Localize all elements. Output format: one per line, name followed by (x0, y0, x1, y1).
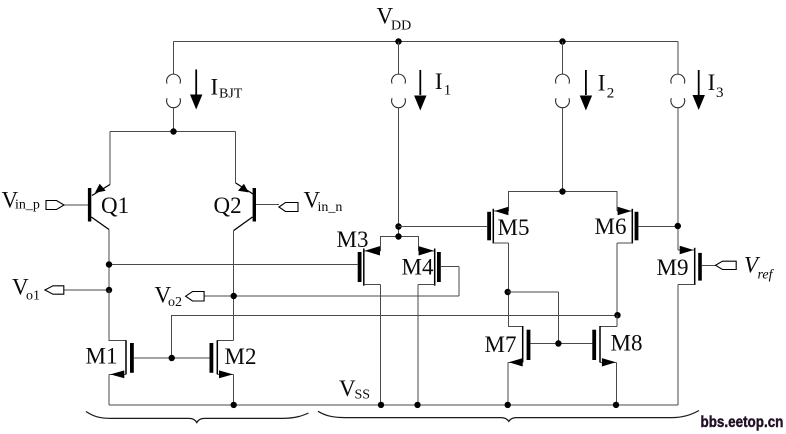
node I2 tie junction (559, 188, 565, 194)
node Q1 collector junction (106, 261, 112, 267)
svg-text:SS: SS (355, 388, 371, 403)
node M1-M2 gate junction (169, 355, 175, 361)
svg-text:M8: M8 (611, 331, 643, 356)
svg-text:2: 2 (607, 86, 615, 102)
svg-text:I: I (598, 71, 606, 96)
svg-text:I: I (211, 75, 219, 100)
svg-text:M1: M1 (86, 344, 118, 369)
wire Q1 collector to M3 gate (109, 264, 358, 266)
port Vo1 (45, 286, 64, 294)
arrow IBJT current direction (195, 70, 197, 96)
transistor M7 (508, 326, 592, 405)
node Vo1 junction (106, 287, 112, 293)
transistor M8 (592, 315, 617, 405)
node M3-M4 tie junction (395, 233, 401, 239)
node rail M3 drain junction (378, 402, 384, 408)
svg-text:I: I (708, 70, 716, 95)
wire M1-M2 gate node riser to M6 drain long wire (172, 316, 618, 359)
wire VDD top rail (174, 41, 678, 43)
svg-text:M6: M6 (595, 214, 627, 239)
node rail M8 source junction (613, 402, 619, 408)
transistor Q2 (234, 132, 279, 341)
svg-text:M9: M9 (657, 255, 689, 280)
svg-text:M5: M5 (498, 215, 530, 240)
wire Vo1 tap (64, 289, 109, 291)
node rail-I2 junction (559, 38, 565, 44)
brace right group (318, 411, 699, 422)
node rail M2 source junction (231, 402, 237, 408)
arrow I2 current direction (585, 70, 587, 95)
node M7-M8 gate junction (555, 340, 561, 346)
node rail M7 source junction (505, 402, 511, 408)
svg-text:BJT: BJT (219, 87, 243, 102)
svg-text:M2: M2 (225, 344, 257, 369)
svg-text:DD: DD (391, 19, 411, 34)
node rail M4 drain junction (414, 402, 420, 408)
wire M5 gate to I1 node (399, 226, 488, 228)
svg-text:ref: ref (758, 268, 775, 283)
current source I3 (671, 42, 685, 227)
wire tail node of BJT pair (110, 131, 236, 133)
node I1 to M5 gate junction (395, 223, 401, 229)
node tail junction (170, 128, 176, 134)
svg-text:M4: M4 (402, 255, 434, 280)
svg-text:o1: o1 (26, 289, 40, 304)
port Vo2 (186, 292, 205, 302)
transistor M5 (487, 207, 508, 327)
svg-text:M7: M7 (485, 332, 517, 357)
svg-text:I: I (435, 69, 443, 94)
transistor M9 (678, 226, 716, 405)
node I3-M6 gate junction (675, 223, 681, 229)
svg-text:M3: M3 (337, 227, 369, 252)
brace left group (86, 412, 309, 423)
svg-text:Q1: Q1 (101, 193, 129, 218)
current source IBJT (167, 42, 181, 132)
arrow I3 current direction (698, 70, 700, 95)
svg-text:in_p: in_p (15, 198, 40, 213)
wire Vo2 tap and run to M4 gate (204, 267, 459, 297)
port Vref (716, 261, 737, 269)
svg-text:bbs.eetop.cn: bbs.eetop.cn (701, 414, 784, 431)
wire M5 drain to M7-M8 gates jog (508, 292, 559, 344)
node rail-I1 junction (395, 38, 401, 44)
svg-text:o2: o2 (168, 295, 182, 310)
transistor M6 (617, 207, 678, 315)
wire M5 M6 source tie (509, 192, 617, 212)
node M5 drain junction (505, 289, 511, 295)
current source I2 (556, 42, 570, 192)
transistor M4 (418, 246, 441, 405)
arrow I1 current direction (419, 70, 421, 95)
port Vin_p (46, 201, 64, 210)
current source I1 (392, 42, 406, 237)
port Vin_n (279, 203, 298, 212)
wire M3 M4 gate tie from I1 node (381, 237, 419, 251)
svg-text:in_n: in_n (318, 200, 343, 215)
svg-text:V: V (339, 376, 356, 401)
node M6-M8 drain long wire junction (614, 312, 620, 318)
wire VSS bottom rail (109, 404, 678, 406)
transistor M3 (358, 246, 381, 405)
svg-text:1: 1 (444, 83, 452, 99)
node Vo2 junction (231, 293, 237, 299)
transistor Q1 (64, 132, 110, 341)
transistor M2 (172, 340, 234, 405)
transistor M1 (109, 290, 172, 405)
svg-text:Q2: Q2 (214, 193, 242, 218)
svg-text:3: 3 (716, 85, 724, 101)
